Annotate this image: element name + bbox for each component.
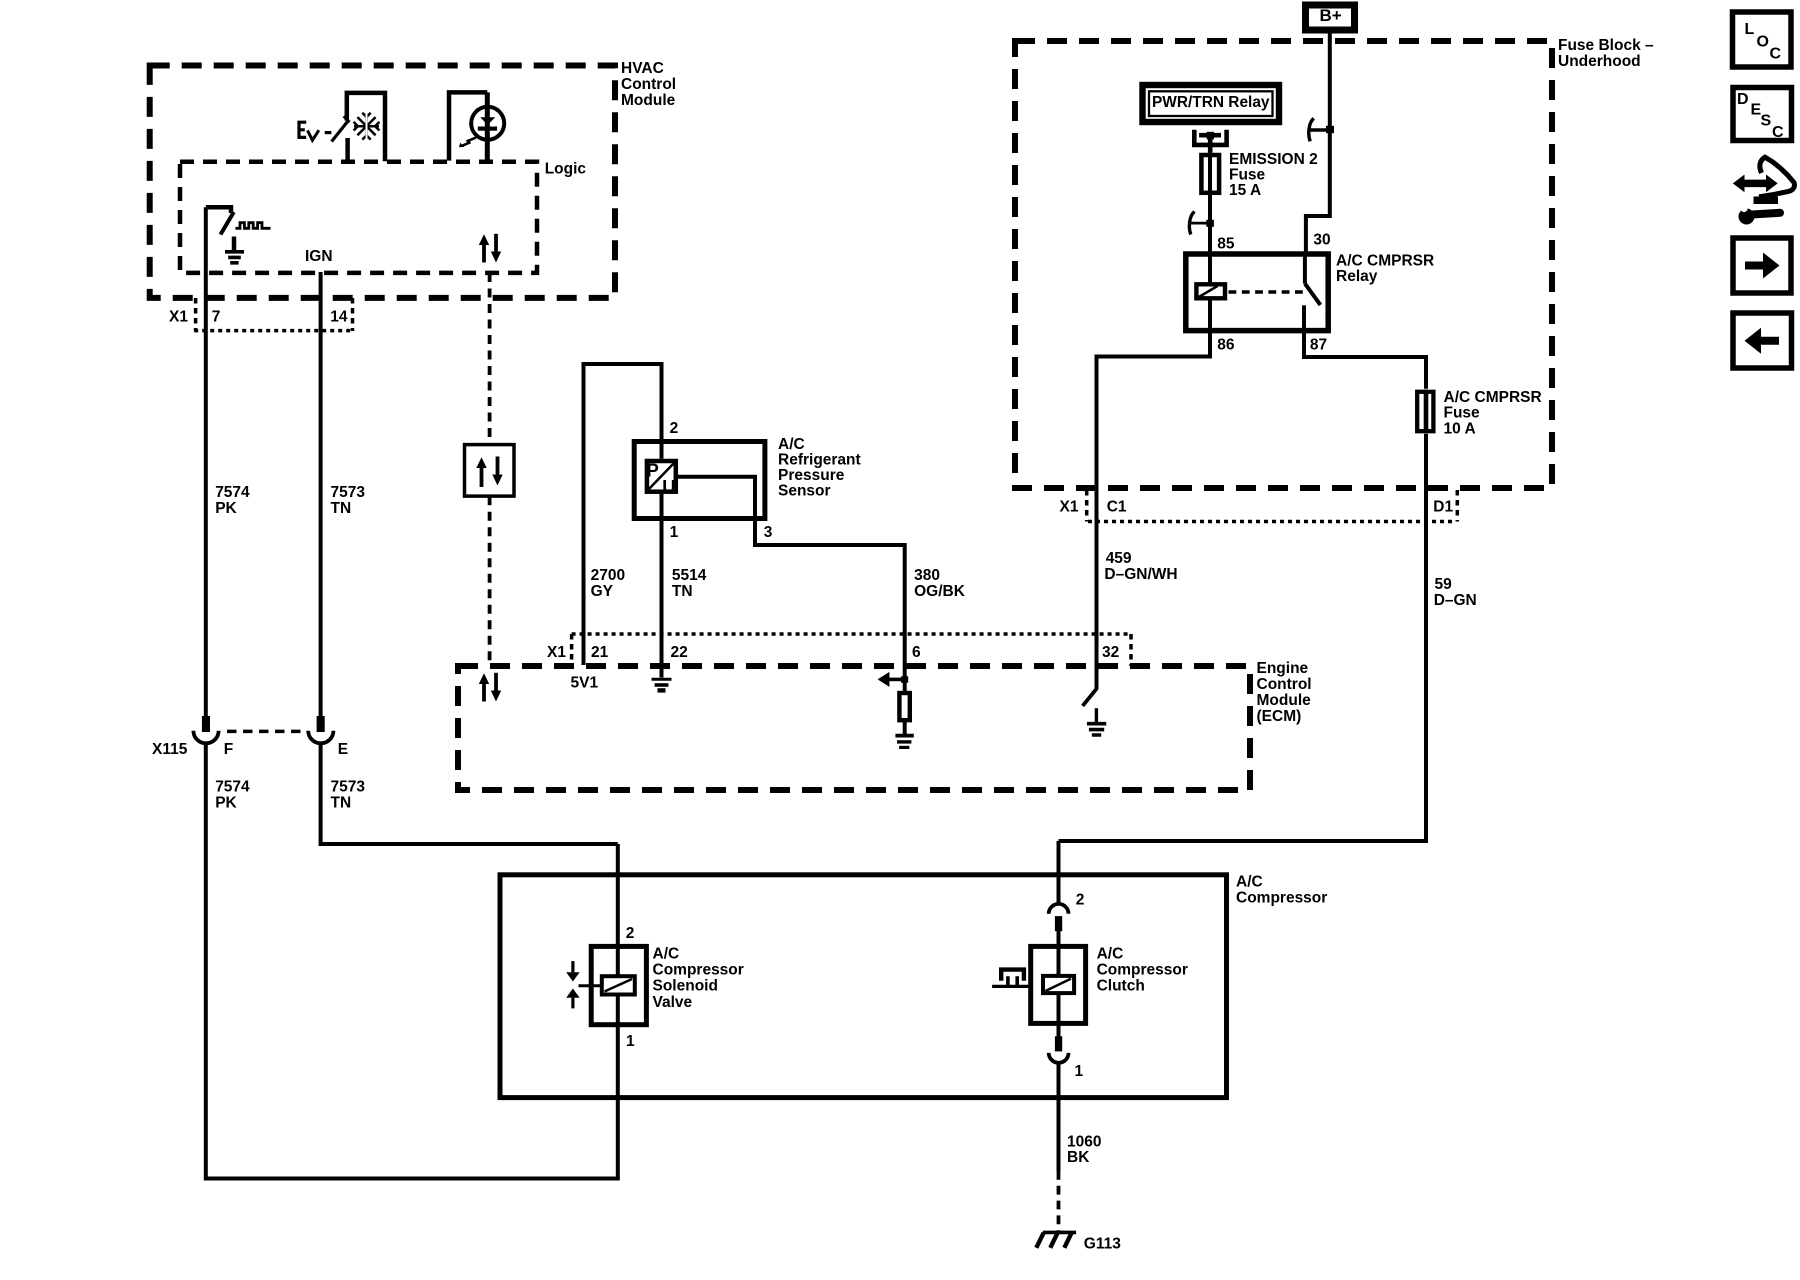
battery feed B+ [1306, 5, 1355, 30]
relay coil [1196, 254, 1225, 332]
svg-text:Logic: Logic [545, 161, 587, 178]
wire pin7 inside HVAC [204, 207, 208, 716]
svg-text:22: 22 [671, 644, 688, 661]
HVAC X1 connector [169, 298, 354, 331]
sidebar jump icon with wrench [1733, 157, 1795, 224]
indicator LED DS1 [449, 92, 504, 161]
PWR/TRN Relay feed box [1143, 85, 1280, 122]
wire 7573 TN to solenoid valve [321, 742, 618, 845]
svg-text:30: 30 [1313, 232, 1330, 249]
serial data arrows in ECM [479, 673, 501, 702]
A/C CMPRSR fuse 10A [1417, 389, 1541, 437]
svg-text:2: 2 [1076, 892, 1085, 909]
sidebar next arrow button [1733, 238, 1791, 293]
svg-text:87: 87 [1310, 337, 1327, 354]
svg-text:7573TN: 7573TN [331, 484, 366, 517]
svg-text:A/C CMPRSRRelay: A/C CMPRSRRelay [1336, 252, 1434, 285]
svg-text:D1: D1 [1433, 499, 1453, 516]
svg-text:2700GY: 2700GY [591, 567, 625, 600]
in-line connector X115 [152, 716, 348, 758]
svg-text:S: S [1761, 113, 1772, 130]
svg-text:7574PK: 7574PK [215, 779, 250, 812]
svg-text:A/CCompressorClutch: A/CCompressorClutch [1097, 945, 1188, 994]
clutch pin 1 in-line terminal [1049, 1023, 1069, 1062]
svg-text:C1: C1 [1107, 499, 1127, 516]
svg-text:1: 1 [626, 1033, 635, 1050]
ECM pin 6 pull-up resistor and ground [878, 634, 914, 747]
svg-text:59D–GN: 59D–GN [1434, 576, 1477, 609]
wire pin 87 to fuse [1304, 330, 1426, 389]
wire IGN pin14 [319, 272, 323, 716]
evaporator temperature switch to ground [206, 207, 271, 263]
P/U transducer symbol [647, 460, 677, 497]
svg-text:2: 2 [670, 420, 679, 437]
A/C request switch S1 with snowflake [298, 93, 385, 161]
svg-text:PWR/TRN Relay: PWR/TRN Relay [1152, 94, 1270, 111]
valve throttling arrows [566, 961, 579, 1008]
A/C CMPRSR Relay box [1186, 252, 1434, 330]
dashed wire to G113 [1057, 1171, 1061, 1232]
serial data arrows in Logic box [479, 234, 501, 263]
svg-text:U: U [662, 476, 675, 497]
svg-text:85: 85 [1217, 236, 1235, 253]
svg-text:5514TN: 5514TN [672, 567, 707, 600]
ECM pin 22 internal ground [652, 634, 672, 690]
clutch pin 2 in-line terminal [1049, 904, 1069, 947]
wire into clutch pin 2 [1057, 841, 1061, 904]
svg-text:A/CCompressorSolenoidValve: A/CCompressorSolenoidValve [653, 945, 744, 1011]
svg-text:HVACControlModule: HVACControlModule [621, 60, 676, 109]
wire pin 86 to ECM [1097, 330, 1211, 634]
relay switch 30-87 [1304, 254, 1320, 332]
clutch mechanical link symbol [992, 970, 1031, 987]
sidebar DESC button [1733, 88, 1792, 142]
A/C Refrigerant Pressure Sensor box [634, 436, 860, 519]
wire solenoid valve pin 1 down [616, 1025, 620, 1179]
fuse holder terminal below PWR/TRN relay [1194, 130, 1226, 153]
svg-text:A/C CMPRSRFuse10 A: A/C CMPRSRFuse10 A [1444, 389, 1542, 437]
svg-text:P: P [647, 460, 659, 481]
svg-text:459D–GN/WH: 459D–GN/WH [1104, 550, 1177, 583]
svg-text:380OG/BK: 380OG/BK [914, 567, 966, 600]
svg-text:C: C [1770, 46, 1782, 63]
svg-text:O: O [1757, 34, 1769, 51]
svg-text:Fuse Block –Underhood: Fuse Block –Underhood [1558, 37, 1654, 70]
connector symbol on pin 85 wire [1189, 211, 1213, 253]
svg-text:A/CCompressor: A/CCompressor [1236, 874, 1327, 907]
svg-text:L: L [1745, 21, 1755, 38]
svg-text:7: 7 [212, 309, 221, 326]
svg-text:86: 86 [1217, 337, 1235, 354]
svg-text:A/CRefrigerantPressureSensor: A/CRefrigerantPressureSensor [778, 436, 861, 500]
connector symbol on B+ wire [1309, 118, 1334, 141]
svg-text:21: 21 [591, 644, 609, 661]
sidebar back arrow button [1733, 313, 1792, 368]
Logic box [180, 161, 586, 273]
svg-text:1060BK: 1060BK [1067, 1134, 1101, 1167]
dashed serial data wire [488, 273, 492, 445]
fuse block X1 connector row [1060, 490, 1458, 522]
svg-text:X1: X1 [547, 644, 566, 661]
svg-text:X115: X115 [152, 741, 188, 758]
svg-text:5V1: 5V1 [571, 675, 599, 692]
EMISSION 2 fuse 15A [1201, 151, 1317, 211]
svg-text:3: 3 [764, 524, 773, 541]
svg-text:X1: X1 [169, 309, 188, 326]
svg-text:6: 6 [912, 644, 921, 661]
svg-text:2: 2 [626, 925, 635, 942]
svg-text:7574PK: 7574PK [215, 484, 250, 517]
svg-text:B+: B+ [1320, 6, 1342, 25]
ECM X1 connector row [547, 634, 1131, 666]
svg-text:EMISSION 2Fuse15 A: EMISSION 2Fuse15 A [1229, 151, 1318, 199]
ECM pin 32 driver switch to ground [1083, 634, 1107, 735]
svg-text:D: D [1737, 91, 1749, 108]
A/C Compressor box [500, 874, 1327, 1098]
Engine Control Module box [458, 660, 1312, 790]
wire 7574 PK to bottom [206, 742, 620, 1179]
svg-text:1: 1 [1075, 1063, 1084, 1080]
svg-text:X1: X1 [1060, 499, 1079, 516]
sidebar LOC button [1733, 12, 1792, 67]
Fuse Block Underhood box [1015, 37, 1654, 488]
svg-text:14: 14 [330, 309, 348, 326]
wire 5V reference up-over to sensor pin 2 [584, 364, 662, 665]
wire into solenoid valve pin 2 [616, 844, 620, 946]
sensor pin 1 wire [660, 494, 664, 634]
boxed serial data symbol [465, 445, 515, 497]
svg-text:7573TN: 7573TN [331, 779, 366, 812]
svg-text:G113: G113 [1084, 1236, 1121, 1253]
ground G113 [1036, 1232, 1121, 1252]
svg-text:C: C [1772, 124, 1784, 141]
dashed serial data wire lower [488, 496, 492, 666]
svg-text:32: 32 [1102, 644, 1119, 661]
HVAC Control Module box [150, 60, 676, 298]
wire from fuse to D1 [1059, 434, 1427, 841]
svg-text:1: 1 [670, 524, 679, 541]
A/C Compressor Solenoid Valve [579, 945, 744, 1024]
wire clutch pin 1 down [1057, 1064, 1061, 1172]
svg-text:IGN: IGN [305, 248, 333, 265]
A/C Compressor Clutch [1031, 945, 1188, 1023]
svg-text:F: F [224, 741, 233, 758]
svg-text:EngineControlModule(ECM): EngineControlModule(ECM) [1257, 660, 1312, 725]
svg-text:E: E [338, 741, 348, 758]
sensor pin 3 wire [678, 477, 905, 634]
relay actuating dashed link [1229, 290, 1305, 294]
wire from B+ to relay pin 30 [1306, 33, 1330, 253]
